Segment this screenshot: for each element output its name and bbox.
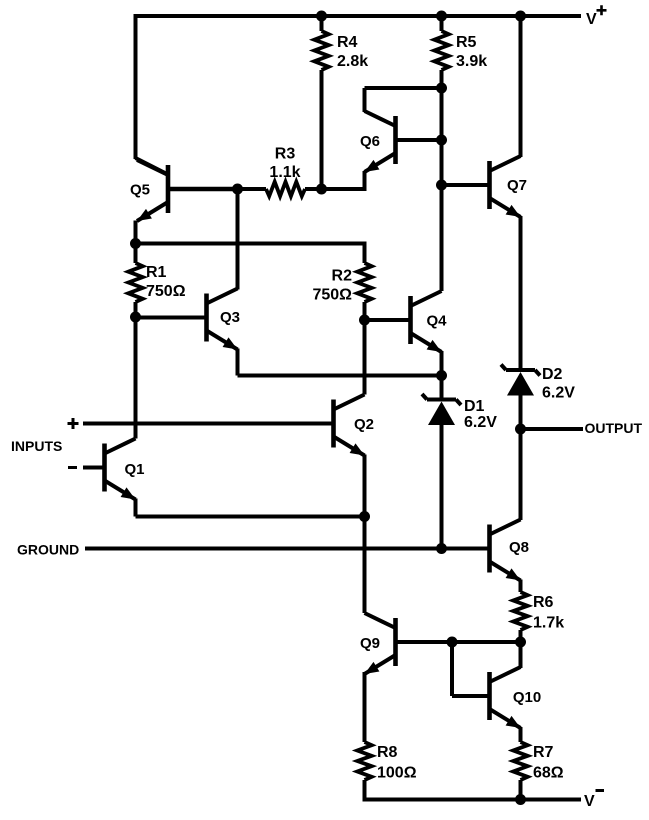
svg-text:3.9k: 3.9k (456, 53, 487, 70)
transistor Q2 (334, 395, 365, 456)
resistor R2 (357, 263, 371, 302)
svg-text:R7: R7 (533, 744, 554, 761)
junction on top rail at Q7 collector (515, 11, 526, 22)
junction Q1/Q2 emitter node (359, 511, 370, 522)
svg-text:R8: R8 (377, 744, 398, 761)
transistor Q4 (411, 291, 442, 352)
wire Q2 emitter drop (363, 455, 367, 517)
resistor R3 (266, 182, 305, 196)
wire Q4 emitter down (440, 351, 444, 376)
transistor Q6 (365, 111, 396, 172)
resistor R4 (314, 31, 328, 70)
svg-text:D2: D2 (542, 366, 563, 383)
wire R7 bottom lead (519, 780, 523, 800)
svg-text:750Ω: 750Ω (146, 283, 186, 300)
junction on top rail at R4 (316, 11, 327, 22)
wire Q6 collector to R5 node (365, 86, 442, 90)
wire Q6 collector riser (363, 88, 367, 112)
wire Q6 emitter riser (363, 171, 367, 191)
junction Q7 base node (436, 180, 447, 191)
svg-text:Q3: Q3 (220, 309, 240, 326)
wire Q1 emitter to Q2 emitter (136, 515, 365, 519)
wire Q1 collector riser (134, 317, 138, 439)
svg-text:Q8: Q8 (509, 539, 529, 556)
svg-text:GROUND: GROUND (17, 542, 79, 558)
wire bus Q5 emitter to R2 top (136, 242, 365, 246)
svg-text:6.2V: 6.2V (464, 414, 497, 431)
svg-text:Q6: Q6 (360, 133, 380, 150)
wire V+ top rail (134, 14, 582, 18)
resistor R1 (128, 263, 142, 302)
svg-text:Q4: Q4 (426, 313, 447, 330)
wire Q5 emitter down (134, 221, 138, 244)
wire R4 top lead (320, 16, 324, 31)
diode D2 (zener) (501, 365, 540, 396)
wire output node to Q8 collector (519, 429, 523, 520)
wire Q5 collector join (136, 158, 170, 175)
transistor Q7 (490, 156, 521, 217)
wire left rail drop to Q5 collector (134, 14, 138, 159)
resistor R8 (357, 742, 371, 780)
svg-text:750Ω: 750Ω (312, 287, 352, 304)
junction R7 / bottom rail (515, 794, 526, 805)
svg-text:Q9: Q9 (360, 635, 380, 652)
junction on top rail at R5 (436, 11, 447, 22)
junction Q5 base / Q3 collector / R3 node (232, 184, 243, 195)
svg-text:Q2: Q2 (354, 416, 374, 433)
wire Q10 base (452, 694, 490, 698)
wire Q5 base to node (168, 187, 238, 191)
wire Q9 base line (396, 640, 521, 644)
resistor R6 (513, 592, 527, 630)
wire Q7 emitter down to D2 (519, 216, 523, 370)
junction R1 bottom / Q3 base node (130, 312, 141, 323)
wire Q7 base (442, 183, 490, 187)
wire D1 bottom lead to ground (440, 425, 444, 549)
transistor Q5 (137, 160, 168, 221)
junction R6 / Q9 base / Q10 collector node (515, 637, 526, 648)
junction Q6 base node (436, 135, 447, 146)
svg-text:68Ω: 68Ω (533, 765, 564, 782)
wire R1 top lead (134, 244, 138, 264)
wire R1 bottom lead (134, 302, 138, 317)
wire D1 top lead (440, 376, 444, 401)
wire Q6 base (396, 138, 442, 142)
junction R3 / R4 node (316, 184, 327, 195)
wire Q10 emitter lead (519, 727, 523, 742)
transistor Q1 (105, 439, 136, 500)
transistor Q10 (490, 667, 521, 728)
wire Q9 emitter drop (363, 672, 367, 742)
svg-text:1.1k: 1.1k (269, 164, 300, 181)
wire node down to Q4 collector (440, 185, 444, 291)
wire Q3 collector riser (236, 189, 240, 290)
junction Q6 collector / R5 node (436, 83, 447, 94)
wire + input to Q2 base (83, 422, 334, 426)
svg-text:D1: D1 (464, 398, 485, 415)
wire Q10 base tap drop (450, 642, 454, 696)
wire Q3 emitter to D1 node (238, 374, 442, 378)
wire R8 bottom lead (363, 780, 367, 800)
wire Q8 emitter lead (519, 580, 523, 593)
wire OUTPUT stub (521, 427, 584, 431)
svg-text:OUTPUT: OUTPUT (585, 420, 643, 436)
junction Q9 base / Q10 base tap (447, 637, 458, 648)
node - input sign (68, 466, 77, 469)
transistor Q8 (490, 520, 521, 581)
wire Q4 base (365, 318, 411, 322)
svg-text:2.8k: 2.8k (337, 53, 368, 70)
svg-text:Q5: Q5 (130, 182, 150, 199)
wire R3 left lead (238, 187, 267, 191)
wire R3 node to Q6 emitter corner (322, 187, 365, 191)
svg-text:6.2V: 6.2V (542, 385, 575, 402)
wire R6 bottom lead (519, 630, 523, 642)
svg-text:Q7: Q7 (507, 177, 527, 194)
wire Q1 emitter drop (134, 499, 138, 517)
wire R5 bottom lead (440, 70, 444, 88)
wire R2 top lead (363, 242, 367, 264)
transistor Q3 (207, 289, 238, 350)
svg-text:V: V (584, 793, 595, 810)
svg-text:100Ω: 100Ω (377, 765, 417, 782)
junction D1 / ground node (436, 543, 447, 554)
svg-text:R5: R5 (456, 34, 477, 51)
junction Q4 emitter / Q3 emitter / D1 node (436, 370, 447, 381)
junction R1 top node (130, 238, 141, 249)
svg-text:Q10: Q10 (513, 689, 541, 706)
svg-text:R4: R4 (337, 34, 358, 51)
wire D2 bottom lead (519, 396, 523, 430)
wire - input to Q1 base (83, 466, 105, 470)
node + input sign (68, 418, 79, 429)
resistor R7 (513, 742, 527, 780)
wire Q10 collector riser (519, 642, 523, 668)
wire ground line (85, 547, 490, 551)
svg-text:R3: R3 (275, 146, 296, 163)
wire emitter node down to Q9 collector (363, 517, 367, 614)
wire Q2 collector riser (363, 320, 367, 395)
wire Q7 collector to V+ (519, 16, 523, 157)
wire R3 right lead (305, 187, 322, 191)
junction OUTPUT node (515, 424, 526, 435)
svg-text:R1: R1 (146, 264, 167, 281)
svg-text:Q1: Q1 (124, 461, 144, 478)
svg-text:INPUTS: INPUTS (11, 438, 62, 454)
wire V- bottom rail (363, 798, 582, 802)
svg-text:V: V (586, 11, 597, 28)
wire R5 top lead (440, 16, 444, 31)
diode D1 (zener) (422, 394, 461, 425)
wire Q3 emitter drop (236, 349, 240, 376)
resistor R5 (434, 31, 448, 70)
svg-text:R2: R2 (332, 268, 353, 285)
wire Q3 base (136, 316, 207, 320)
junction R2 bottom / Q4 base node (359, 315, 370, 326)
svg-text:R6: R6 (533, 594, 554, 611)
wire R4 bottom lead (320, 70, 324, 189)
wire R2 bottom lead (363, 302, 367, 320)
wire R5 node down to Q7 base node (440, 88, 444, 185)
svg-text:1.7k: 1.7k (533, 615, 564, 632)
transistor Q9 (365, 613, 396, 674)
